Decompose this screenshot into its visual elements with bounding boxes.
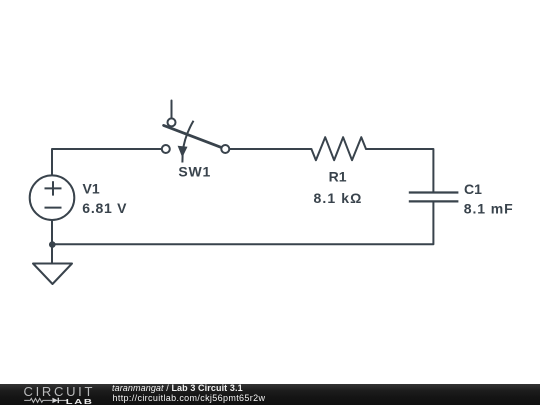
logo diode [52, 398, 58, 403]
node junction at V1 bottom / ground [49, 241, 56, 248]
svg-text:6.81 V: 6.81 V [82, 200, 127, 216]
wire from V1 bottom to ground [51, 220, 53, 263]
switch lever [164, 125, 222, 147]
wire from capacitor C1 bottom to bottom rail [52, 202, 433, 244]
logo resistor zigzag [24, 398, 52, 402]
switch top contact circle [168, 118, 176, 126]
resistor R1 [311, 137, 366, 160]
svg-text:8.1 kΩ: 8.1 kΩ [314, 190, 363, 206]
wire switch SW1 top throw stub [171, 101, 173, 119]
svg-text:8.1 mF: 8.1 mF [464, 200, 514, 216]
svg-text:http://circuitlab.com/ckj56pmt: http://circuitlab.com/ckj56pmt65r2w [113, 393, 266, 403]
svg-text:LAB: LAB [66, 397, 94, 405]
voltage source V1 [30, 175, 75, 220]
switch SW1 [162, 118, 230, 162]
switch arrowhead [178, 146, 188, 158]
svg-text:SW1: SW1 [178, 164, 211, 180]
footer bar [0, 384, 540, 405]
capacitor C1 [409, 193, 459, 202]
svg-text:V1: V1 [83, 180, 100, 196]
switch left contact circle [162, 145, 170, 153]
svg-text:C1: C1 [464, 181, 482, 197]
wire from V1 top to switch left contact [52, 149, 161, 176]
switch motion arc [182, 121, 193, 163]
svg-text:R1: R1 [329, 169, 347, 185]
wire from resistor R1 to capacitor C1 top [366, 149, 434, 192]
ground [33, 264, 72, 285]
svg-text:taranmangat / Lab 3 Circuit 3.: taranmangat / Lab 3 Circuit 3.1 [112, 383, 243, 393]
wire from switch right contact to resistor R1 [229, 148, 311, 150]
switch right contact circle [221, 145, 229, 153]
